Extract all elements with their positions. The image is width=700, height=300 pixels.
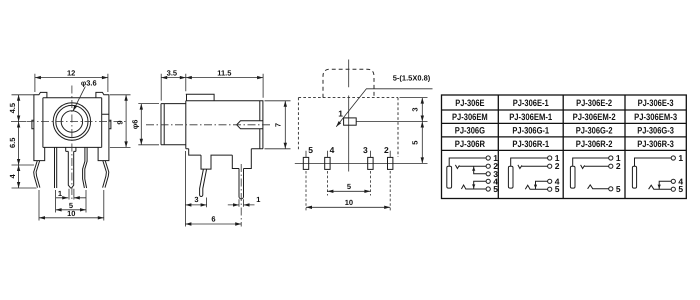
terminal pin 1 bbox=[671, 156, 675, 160]
wire: body right face edge with step bbox=[102, 98, 109, 148]
dimension dia 6 bbox=[138, 104, 159, 145]
sleeve contact bbox=[508, 166, 513, 188]
svg-text:1: 1 bbox=[256, 195, 260, 204]
ring spring contact (pin 5) bbox=[525, 185, 547, 189]
wire: sleeve to pin 1 bbox=[635, 158, 672, 166]
terminal pin 2 bbox=[548, 164, 552, 168]
centerline vertical axis bbox=[348, 60, 350, 172]
svg-text:PJ-306R-2: PJ-306R-2 bbox=[576, 139, 613, 149]
terminal pin 5 bbox=[486, 187, 490, 191]
svg-text:4: 4 bbox=[330, 145, 335, 155]
pad pin 4 bbox=[325, 157, 330, 169]
pcb pin side bbox=[239, 169, 244, 199]
dimension 7 bbox=[265, 101, 291, 149]
pin leg straight right bbox=[83, 147, 88, 188]
dimension 3 (vertical) bbox=[400, 98, 428, 164]
switch contact arrow up bbox=[472, 167, 475, 171]
wire: main body rectangle bbox=[186, 101, 263, 149]
wire: body front face bbox=[43, 98, 102, 148]
wire: pin stub lines above pads bbox=[306, 151, 390, 158]
svg-text:5: 5 bbox=[411, 141, 420, 145]
centerline horizontal bbox=[27, 121, 126, 123]
svg-text:φ6: φ6 bbox=[130, 120, 139, 130]
wire: left side lug bbox=[32, 120, 34, 128]
terminal pin 5 bbox=[548, 187, 552, 191]
svg-text:1: 1 bbox=[58, 189, 62, 198]
tip spring contact (pin 2) bbox=[581, 165, 609, 169]
wire: pin 1 level line bbox=[356, 121, 427, 123]
svg-text:PJ-306E-3: PJ-306E-3 bbox=[638, 98, 674, 108]
dimension 1 (pin width) bbox=[228, 199, 255, 207]
schematic jack symbol PJ-306E-2 bbox=[570, 153, 621, 194]
terminal pin 2 bbox=[609, 164, 613, 168]
pcb layout view bbox=[295, 60, 433, 213]
wire: left flange outline bbox=[34, 92, 47, 160]
svg-text:PJ-306R: PJ-306R bbox=[455, 139, 485, 149]
bent leg left bbox=[34, 161, 40, 188]
svg-text:PJ-306E-1: PJ-306E-1 bbox=[513, 98, 549, 108]
table row lines bbox=[442, 110, 687, 150]
svg-text:3: 3 bbox=[411, 107, 420, 111]
wire: sleeve to pin 1 bbox=[573, 158, 609, 166]
switch contact arrow down bbox=[534, 185, 537, 189]
ring spring contact (pin 5) bbox=[461, 185, 486, 189]
leader line for dia 3.6 bbox=[73, 87, 85, 111]
tip spring contact (pin 2) bbox=[455, 165, 486, 169]
wire: switch junction pin 4 bbox=[474, 181, 486, 189]
pin leg straight left bbox=[55, 147, 57, 188]
svg-text:7: 7 bbox=[274, 123, 283, 127]
svg-text:5: 5 bbox=[493, 184, 498, 194]
svg-text:5: 5 bbox=[555, 184, 560, 194]
svg-text:5: 5 bbox=[678, 184, 683, 194]
svg-text:PJ-306G-3: PJ-306G-3 bbox=[637, 126, 674, 136]
extension lines under legs bbox=[39, 189, 104, 221]
terminal pin 1 bbox=[548, 156, 552, 160]
wire: top boss bbox=[186, 94, 214, 101]
pad pin 3 bbox=[368, 157, 373, 169]
terminal pin 5 bbox=[609, 187, 613, 191]
sleeve contact bbox=[570, 166, 575, 188]
dimension 1 bbox=[56, 197, 86, 199]
terminal pin 3 bbox=[486, 172, 490, 176]
schematic jack symbol PJ-306E-1 bbox=[508, 153, 559, 194]
table column lines bbox=[498, 95, 625, 199]
svg-text:3.5: 3.5 bbox=[167, 69, 177, 78]
pin centerline bbox=[240, 164, 242, 227]
extension dashed lines below pads bbox=[306, 171, 390, 212]
wire: bottom left step bbox=[189, 149, 263, 169]
dimension 10 (pins 5-2) bbox=[306, 206, 390, 208]
wire: threaded barrel bbox=[161, 104, 186, 145]
svg-text:PJ-306EM-2: PJ-306EM-2 bbox=[573, 112, 616, 122]
tip spring contact (pin 2) bbox=[518, 165, 548, 169]
wire: pin row line bbox=[295, 162, 428, 164]
svg-text:PJ-306G: PJ-306G bbox=[455, 126, 485, 136]
ring spring contact (pin 5) bbox=[649, 185, 672, 189]
svg-text:5-(1.5X0.8): 5-(1.5X0.8) bbox=[393, 73, 431, 82]
svg-text:PJ-306EM-1: PJ-306EM-1 bbox=[509, 112, 552, 122]
svg-text:12: 12 bbox=[67, 69, 75, 78]
dimension 6 bbox=[185, 223, 241, 225]
dimension 3.5 bbox=[161, 74, 263, 101]
dimension 9 bbox=[110, 95, 131, 148]
schematic jack symbol PJ-306E bbox=[447, 153, 499, 194]
wire: sleeve to pin 1 bbox=[449, 158, 486, 166]
svg-text:4.5: 4.5 bbox=[8, 103, 17, 113]
wire: switch junction pin 4 bbox=[536, 181, 548, 189]
wire: dashed body outline top bump bbox=[323, 69, 374, 97]
dimension 10 bbox=[39, 217, 104, 219]
svg-text:4: 4 bbox=[8, 173, 17, 178]
wire: right side lug bbox=[109, 120, 111, 128]
switch contact arrow down bbox=[472, 184, 475, 188]
dimension 4.5 bbox=[11, 95, 37, 188]
svg-text:φ3.6: φ3.6 bbox=[81, 79, 97, 88]
dimension 5 bbox=[56, 209, 86, 211]
svg-text:3: 3 bbox=[363, 145, 368, 155]
svg-text:2: 2 bbox=[616, 161, 621, 171]
bent leg side bbox=[200, 169, 207, 196]
ring spring contact (pin 5) bbox=[588, 185, 609, 189]
dimension 3 bbox=[185, 151, 206, 227]
pin leg center shank bbox=[66, 147, 76, 188]
schematic jack symbol PJ-306E-3 bbox=[632, 153, 683, 194]
jack hole circle (dia 3.6) bbox=[61, 111, 82, 132]
leader 5-(1.5X0.8) bbox=[336, 89, 432, 127]
svg-text:PJ-306R-1: PJ-306R-1 bbox=[512, 139, 549, 149]
svg-text:10: 10 bbox=[67, 209, 75, 218]
svg-text:5: 5 bbox=[616, 184, 621, 194]
svg-text:9: 9 bbox=[116, 120, 125, 124]
wire: right flange outline bbox=[96, 92, 109, 160]
terminal pin 1 bbox=[486, 156, 490, 160]
svg-text:1: 1 bbox=[338, 108, 343, 118]
svg-text:5: 5 bbox=[308, 145, 313, 155]
svg-text:10: 10 bbox=[345, 198, 353, 207]
terminal pin 1 bbox=[609, 156, 613, 160]
sleeve contact bbox=[632, 166, 636, 188]
wire: dashed body outline main bbox=[298, 98, 398, 157]
wire: switch junction pin 3 bbox=[474, 166, 486, 174]
terminal pin 4 bbox=[548, 179, 552, 183]
pad pin 5 bbox=[303, 157, 308, 169]
side view: jack body J1 side profile bbox=[130, 69, 290, 227]
svg-text:PJ-306EM-3: PJ-306EM-3 bbox=[634, 112, 677, 122]
centerline vertical bbox=[71, 86, 73, 200]
part number table bbox=[442, 95, 687, 199]
svg-text:1: 1 bbox=[678, 153, 683, 163]
dimension 12 bbox=[35, 74, 108, 92]
pad pin 2 bbox=[388, 157, 393, 169]
front view: jack body J1 bbox=[8, 69, 130, 221]
centerline horizontal bbox=[146, 124, 272, 126]
pad pin 1 bbox=[344, 118, 357, 125]
dimension 6.5 bbox=[17, 159, 20, 171]
barrel front rim circle bbox=[56, 105, 88, 137]
dimension 5 (pins 4-3) bbox=[327, 190, 370, 192]
wire: side slot bbox=[237, 121, 263, 129]
svg-text:6: 6 bbox=[211, 214, 215, 223]
svg-text:5: 5 bbox=[347, 182, 351, 191]
svg-text:11.5: 11.5 bbox=[217, 69, 231, 78]
svg-text:3: 3 bbox=[194, 195, 198, 204]
terminal pin 4 bbox=[486, 179, 490, 183]
svg-text:PJ-306EM: PJ-306EM bbox=[452, 112, 488, 122]
dimension 4 bbox=[17, 182, 20, 188]
bent leg right bbox=[103, 161, 109, 188]
svg-text:PJ-306R-3: PJ-306R-3 bbox=[637, 139, 674, 149]
svg-text:PJ-306E-2: PJ-306E-2 bbox=[576, 98, 612, 108]
svg-text:PJ-306E: PJ-306E bbox=[455, 98, 484, 108]
terminal pin 4 bbox=[671, 179, 675, 183]
terminal pin 5 bbox=[671, 187, 675, 191]
svg-text:6.5: 6.5 bbox=[8, 138, 17, 148]
svg-text:2: 2 bbox=[555, 161, 560, 171]
barrel outer circle bbox=[53, 103, 90, 140]
sleeve contact bbox=[447, 166, 452, 188]
svg-text:2: 2 bbox=[384, 145, 389, 155]
switch contact arrow down bbox=[658, 185, 661, 189]
table border bbox=[442, 95, 687, 199]
terminal pin 2 bbox=[486, 164, 490, 168]
wire: switch junction pin 4 bbox=[659, 181, 671, 189]
svg-text:PJ-306G-1: PJ-306G-1 bbox=[512, 126, 549, 136]
wire: right inner edge bbox=[259, 101, 261, 149]
wire: sleeve to pin 1 bbox=[511, 158, 548, 166]
svg-text:PJ-306G-2: PJ-306G-2 bbox=[576, 126, 613, 136]
